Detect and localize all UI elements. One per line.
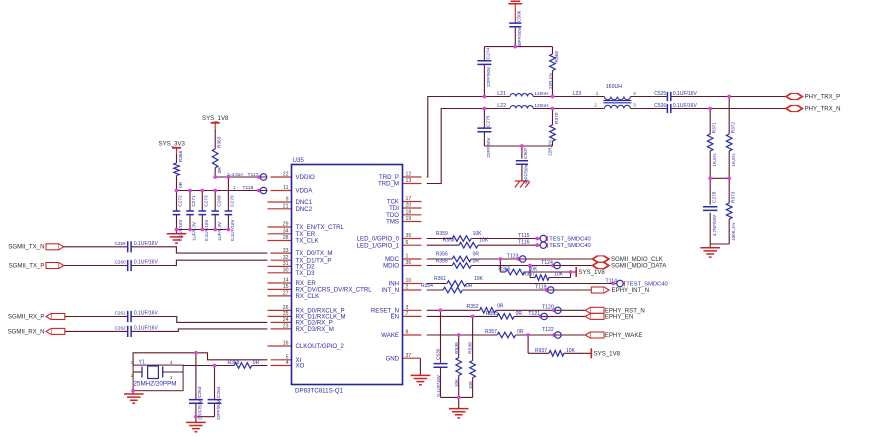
svg-text:11: 11 — [283, 185, 288, 191]
svg-text:22PF/50V: 22PF/50V — [486, 137, 491, 157]
svg-text:EPHY_EN: EPHY_EN — [605, 314, 633, 321]
svg-text:16: 16 — [283, 341, 289, 347]
svg-text:TMS: TMS — [386, 219, 399, 226]
svg-text:22PF/50V: 22PF/50V — [486, 67, 491, 87]
svg-text:T121: T121 — [528, 311, 540, 317]
svg-text:T119: T119 — [535, 284, 547, 290]
svg-text:0.1UF/16V: 0.1UF/16V — [134, 260, 159, 266]
svg-text:SGMII_RX_P: SGMII_RX_P — [8, 313, 45, 320]
svg-text:C270: C270 — [230, 195, 236, 207]
svg-text:160UH: 160UH — [606, 84, 622, 90]
svg-text:T123: T123 — [507, 253, 519, 259]
svg-text:18: 18 — [406, 210, 412, 216]
svg-text:14: 14 — [283, 278, 289, 284]
svg-text:C272: C272 — [178, 195, 184, 207]
svg-text:C506: C506 — [517, 10, 523, 22]
svg-text:1K,5%: 1K,5% — [712, 153, 717, 166]
svg-text:TEST_SMDC40: TEST_SMDC40 — [549, 236, 591, 242]
svg-text:VDDIO: VDDIO — [296, 174, 316, 181]
svg-text:0R: 0R — [217, 167, 223, 174]
svg-text:0R: 0R — [497, 303, 504, 309]
svg-text:0R: 0R — [178, 181, 184, 188]
svg-text:0R: 0R — [253, 360, 260, 366]
svg-text:10: 10 — [406, 278, 412, 284]
svg-text:R359: R359 — [436, 231, 448, 237]
svg-text:7: 7 — [406, 311, 409, 317]
svg-text:2: 2 — [131, 373, 134, 379]
svg-text:120nH: 120nH — [534, 103, 549, 109]
svg-text:34: 34 — [283, 229, 289, 235]
svg-text:EN: EN — [391, 314, 399, 321]
svg-text:1=4.0uA: 1=4.0uA — [227, 172, 243, 177]
svg-text:1 -: 1 - — [233, 185, 239, 190]
svg-text:C263: C263 — [197, 386, 203, 398]
svg-text:37: 37 — [406, 353, 412, 359]
svg-text:SYS_1V8: SYS_1V8 — [578, 269, 605, 276]
svg-text:22R,1%: 22R,1% — [548, 73, 553, 89]
svg-text:EPHY_INT_N: EPHY_INT_N — [612, 287, 650, 294]
svg-text:C260: C260 — [115, 260, 126, 265]
svg-text:R370: R370 — [554, 112, 560, 124]
svg-text:PHY_TRX_P: PHY_TRX_P — [805, 94, 841, 101]
svg-text:TX_D3: TX_D3 — [296, 270, 316, 277]
svg-text:C261: C261 — [115, 311, 126, 316]
svg-text:LED_1/GPIO_1: LED_1/GPIO_1 — [357, 242, 400, 249]
svg-text:0.1UF/16V: 0.1UF/16V — [673, 103, 698, 109]
svg-text:31: 31 — [283, 261, 289, 267]
svg-text:WAKE: WAKE — [381, 332, 399, 339]
svg-text:DP83TC811S-Q1: DP83TC811S-Q1 — [295, 388, 344, 395]
svg-text:10K: 10K — [474, 276, 484, 282]
svg-text:R371: R371 — [712, 122, 718, 134]
svg-text:RX_CLK: RX_CLK — [296, 293, 320, 300]
svg-text:C269: C269 — [216, 195, 222, 207]
svg-text:0.1UF/16V: 0.1UF/16V — [204, 219, 209, 241]
svg-text:T124: T124 — [541, 260, 553, 266]
svg-text:TRD_M: TRD_M — [378, 181, 399, 188]
svg-text:30: 30 — [283, 268, 289, 274]
svg-text:4.7NF/50V: 4.7NF/50V — [712, 215, 717, 237]
svg-text:L21: L21 — [497, 91, 506, 97]
svg-text:R937: R937 — [535, 348, 547, 354]
svg-text:12: 12 — [406, 172, 412, 178]
svg-text:CLKOUT/GPIO_2: CLKOUT/GPIO_2 — [296, 343, 345, 350]
svg-text:C264: C264 — [216, 386, 222, 398]
svg-text:22PF/50V: 22PF/50V — [198, 400, 203, 420]
svg-text:C274: C274 — [486, 48, 492, 60]
svg-text:0.1UF/16V: 0.1UF/16V — [178, 219, 183, 241]
svg-text:10K: 10K — [566, 348, 576, 354]
svg-text:0R: 0R — [516, 311, 523, 317]
svg-text:0.1UF/16V: 0.1UF/16V — [436, 375, 441, 397]
svg-text:R367: R367 — [523, 272, 535, 278]
svg-text:40PF/50V: 40PF/50V — [524, 164, 529, 184]
svg-text:R358: R358 — [443, 238, 455, 244]
svg-text:23: 23 — [283, 324, 289, 330]
svg-text:R353: R353 — [486, 311, 498, 317]
svg-text:TX_D0/TX_M: TX_D0/TX_M — [296, 250, 333, 257]
svg-text:0R: 0R — [466, 283, 473, 289]
svg-text:SGMII_TX_P: SGMII_TX_P — [9, 262, 45, 269]
svg-text:29: 29 — [283, 222, 289, 228]
svg-text:R357: R357 — [485, 329, 497, 335]
svg-text:RX_D3/RX_M: RX_D3/RX_M — [296, 326, 334, 333]
svg-text:0R: 0R — [517, 329, 524, 335]
svg-text:120nH: 120nH — [534, 91, 549, 97]
svg-text:10K: 10K — [454, 379, 459, 387]
svg-text:0.1UF/16V: 0.1UF/16V — [134, 311, 159, 317]
svg-text:35: 35 — [406, 233, 412, 239]
svg-text:L22: L22 — [497, 103, 506, 109]
svg-text:T114: T114 — [606, 278, 618, 284]
svg-text:10K: 10K — [554, 272, 564, 278]
svg-text:28: 28 — [283, 235, 289, 241]
svg-text:T120: T120 — [542, 305, 554, 311]
svg-text:17: 17 — [406, 196, 412, 202]
svg-text:SGMII_RX_N: SGMII_RX_N — [8, 328, 45, 335]
svg-text:22PF/50V: 22PF/50V — [216, 400, 221, 420]
svg-text:DNC2: DNC2 — [296, 206, 313, 213]
svg-text:19: 19 — [406, 216, 412, 222]
svg-text:2: 2 — [594, 102, 597, 107]
svg-text:1: 1 — [596, 91, 599, 96]
svg-text:R354: R354 — [421, 283, 433, 289]
svg-text:C535: C535 — [436, 348, 442, 360]
svg-text:0R: 0R — [473, 252, 480, 258]
svg-text:0.1UF/16V: 0.1UF/16V — [673, 91, 698, 97]
svg-text:C278: C278 — [712, 191, 718, 203]
svg-text:25MHZ/20PPM: 25MHZ/20PPM — [134, 380, 177, 387]
svg-text:6: 6 — [406, 240, 409, 246]
svg-text:T115: T115 — [518, 233, 530, 239]
svg-text:10K: 10K — [473, 231, 483, 237]
svg-text:INT_N: INT_N — [381, 287, 399, 294]
svg-text:40PF/50V: 40PF/50V — [517, 27, 522, 47]
svg-text:1K,5%: 1K,5% — [731, 153, 736, 166]
svg-text:SYS_3V3: SYS_3V3 — [159, 141, 186, 148]
svg-text:SYS_1V8: SYS_1V8 — [202, 115, 229, 122]
svg-text:10K: 10K — [468, 381, 473, 389]
svg-text:Y1: Y1 — [139, 359, 145, 365]
svg-text:33: 33 — [283, 248, 289, 254]
svg-text:GND: GND — [385, 355, 399, 362]
svg-text:R536: R536 — [454, 342, 460, 354]
svg-text:SYS_1V8: SYS_1V8 — [594, 350, 621, 357]
svg-text:100K,1%: 100K,1% — [731, 223, 736, 241]
svg-text:T116: T116 — [518, 240, 530, 246]
svg-text:C526: C526 — [654, 103, 666, 109]
svg-text:4: 4 — [286, 360, 289, 366]
svg-text:4: 4 — [633, 91, 636, 96]
svg-text:C273: C273 — [204, 195, 210, 207]
svg-text:8: 8 — [406, 330, 409, 336]
svg-text:MDIO: MDIO — [383, 263, 399, 270]
svg-text:R372: R372 — [731, 122, 737, 134]
svg-text:36: 36 — [406, 260, 412, 266]
svg-text:21: 21 — [283, 204, 289, 210]
svg-text:SGMII_MDIO_DATA: SGMII_MDIO_DATA — [611, 263, 667, 270]
svg-text:T122: T122 — [542, 327, 554, 333]
svg-text:3: 3 — [131, 360, 134, 366]
svg-text:9: 9 — [286, 197, 289, 203]
svg-text:R373: R373 — [731, 191, 737, 203]
svg-text:0R: 0R — [473, 258, 480, 264]
svg-text:C271: C271 — [191, 195, 197, 207]
svg-text:U35: U35 — [293, 157, 305, 164]
svg-text:R538: R538 — [468, 342, 474, 354]
svg-text:13: 13 — [406, 178, 412, 184]
svg-text:2: 2 — [406, 285, 409, 291]
svg-text:C507: C507 — [523, 147, 529, 159]
svg-text:1UF/6.3V: 1UF/6.3V — [217, 222, 222, 241]
svg-text:T117: T117 — [248, 172, 259, 178]
svg-text:R352: R352 — [467, 304, 479, 310]
svg-text:15: 15 — [283, 284, 289, 290]
svg-text:1UF/6.3V: 1UF/6.3V — [192, 222, 197, 241]
svg-text:10K: 10K — [479, 238, 489, 244]
svg-text:C275: C275 — [486, 115, 492, 127]
svg-text:XO: XO — [296, 363, 305, 370]
svg-text:SGMII_TX_N: SGMII_TX_N — [8, 244, 44, 251]
svg-text:3: 3 — [406, 305, 409, 311]
svg-text:VDDA: VDDA — [296, 188, 314, 195]
svg-text:3: 3 — [633, 102, 636, 107]
svg-text:R368: R368 — [228, 360, 240, 366]
svg-text:20: 20 — [406, 203, 412, 209]
svg-text:C525: C525 — [654, 91, 666, 97]
svg-text:27: 27 — [283, 291, 289, 297]
svg-text:22: 22 — [283, 172, 289, 178]
svg-text:L23: L23 — [573, 91, 582, 97]
svg-text:R365: R365 — [498, 266, 510, 272]
svg-text:T118: T118 — [243, 185, 254, 191]
svg-text:PHY_TRX_N: PHY_TRX_N — [805, 106, 841, 113]
svg-text:R366: R366 — [178, 150, 184, 162]
svg-text:4: 4 — [170, 360, 173, 366]
svg-text:32: 32 — [283, 255, 289, 261]
svg-text:TX_CLK: TX_CLK — [296, 238, 319, 245]
svg-text:0.1UF/16V: 0.1UF/16V — [134, 241, 159, 247]
svg-text:24: 24 — [283, 317, 289, 323]
svg-text:EPHY_WAKE: EPHY_WAKE — [605, 332, 643, 339]
svg-text:C259: C259 — [115, 241, 126, 246]
svg-text:R355: R355 — [436, 258, 448, 264]
svg-text:R369: R369 — [554, 51, 560, 63]
svg-text:0.1UF/16V: 0.1UF/16V — [134, 325, 159, 331]
svg-text:R356: R356 — [436, 252, 448, 258]
svg-text:R361: R361 — [434, 276, 446, 282]
svg-text:22R,1%: 22R,1% — [547, 140, 552, 156]
svg-text:1: 1 — [406, 254, 409, 260]
svg-text:C262: C262 — [115, 325, 126, 330]
svg-text:TEST_SMDC40: TEST_SMDC40 — [549, 243, 591, 249]
svg-text:0.1UF/16V: 0.1UF/16V — [230, 219, 235, 241]
svg-text:R363: R363 — [217, 136, 223, 148]
